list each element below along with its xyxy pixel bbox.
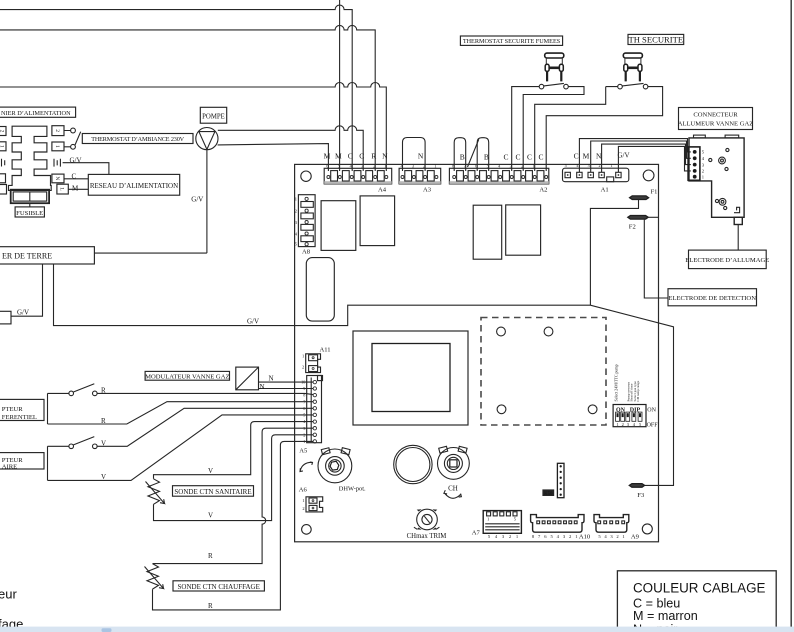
label ELECTRODE DE DETECTION [668, 289, 757, 306]
connector A10 [531, 515, 584, 533]
wire A1 pin4 to igniter pin5 [579, 139, 690, 172]
wire M vertical to A4 pin5 [339, 0, 341, 171]
label CONNECTEUR ALLUMEUR VANNE GAZ [678, 108, 754, 130]
svg-text:V: V [101, 439, 106, 447]
svg-text:M: M [335, 151, 342, 160]
svg-text:ON: ON [647, 408, 656, 414]
connector A11 [302, 354, 321, 373]
ground symbol G/V [54, 156, 109, 174]
svg-text:A7: A7 [472, 529, 481, 536]
fuse F2 [628, 216, 659, 231]
svg-text:A1: A1 [601, 186, 609, 193]
svg-text:B: B [460, 153, 465, 162]
pump P1 [196, 128, 218, 150]
wire V sanitaire bottom to A5 pin2 [154, 435, 314, 521]
DIP switch S1 [613, 405, 646, 427]
label capteur sanitaire [0, 453, 44, 471]
wire igniter to electrode allumage [737, 225, 739, 251]
svg-text:A4: A4 [378, 186, 387, 193]
svg-text:N: N [269, 375, 274, 383]
earth clamp box [0, 308, 29, 324]
wire V sanitaire top to A5 pin4 [154, 422, 314, 479]
svg-text:V: V [208, 512, 213, 520]
scrollbar track bottom [0, 627, 794, 632]
adjust arrow DHW [300, 462, 313, 472]
svg-text:G/V: G/V [17, 308, 29, 316]
label TH SECURITE [628, 34, 684, 44]
label capteur differentiel [0, 399, 44, 421]
thermostat ambiance switch contacts [64, 128, 81, 149]
svg-text:N: N [260, 383, 265, 391]
svg-text:R: R [101, 417, 106, 425]
svg-text:5: 5 [565, 163, 567, 168]
scrollbar thumb [102, 628, 112, 632]
svg-text:N: N [54, 176, 60, 180]
svg-text:POMPE: POMPE [202, 114, 225, 121]
svg-text:V: V [208, 467, 213, 475]
svg-text:1: 1 [0, 145, 4, 148]
svg-text:5: 5 [338, 163, 340, 168]
svg-text:F2: F2 [629, 223, 636, 230]
svg-text:A6: A6 [299, 487, 308, 494]
svg-text:DHW-pot.: DHW-pot. [339, 485, 366, 492]
svg-text:FERENTIEL: FERENTIEL [2, 414, 37, 421]
modulator valve symbol [236, 367, 259, 390]
svg-text:B: B [484, 153, 489, 162]
A4 terminal letters M M C C R N [324, 151, 389, 160]
svg-text:A11: A11 [319, 347, 330, 354]
potentiometer CH [438, 446, 470, 479]
svg-text:eur: eur [0, 587, 17, 602]
wire V to A5 pin5 [48, 415, 314, 481]
svg-text:FUSIBLE: FUSIBLE [16, 210, 43, 217]
A10 pin numbers [532, 534, 578, 539]
label THERMOSTAT D'AMBIANCE 230V [82, 134, 193, 144]
wire SW1 left to A2 pin4 [512, 87, 540, 171]
svg-text:2: 2 [302, 506, 304, 511]
svg-text:2: 2 [373, 163, 375, 168]
svg-text:6: 6 [326, 163, 328, 168]
igniter pin connector [688, 147, 705, 180]
DIP ON/OFF labels [647, 408, 659, 429]
svg-text:R: R [101, 387, 106, 395]
A9 pin numbers [598, 534, 625, 539]
svg-text:R: R [371, 151, 376, 160]
svg-text:1: 1 [434, 163, 436, 168]
svg-text:2: 2 [0, 130, 4, 133]
svg-text:A10: A10 [579, 534, 591, 541]
connector A2 [449, 163, 548, 184]
thermostat TH fumees [545, 53, 564, 81]
A7 pin numbers [488, 534, 519, 539]
label BORNIER D'ALIMENTATION [0, 107, 76, 117]
svg-text:2: 2 [295, 208, 297, 213]
connector A5 [301, 376, 322, 445]
panel hole 2 [544, 327, 553, 336]
svg-text:Select 24M/TTC pump: Select 24M/TTC pump [614, 364, 619, 401]
svg-text:OFF: OFF [647, 423, 659, 429]
svg-text:NIER D’ALIMENTATION: NIER D’ALIMENTATION [1, 110, 71, 117]
svg-text:THERMOSTAT D’AMBIANCE 230V: THERMOSTAT D’AMBIANCE 230V [91, 136, 184, 143]
A2 letters C C C C [503, 153, 543, 162]
label SONDE CTN SANITAIRE [173, 486, 254, 497]
svg-text:ALLUMEUR VANNE GAZ: ALLUMEUR VANNE GAZ [678, 121, 754, 128]
svg-text:CH: CH [448, 484, 458, 492]
svg-text:C: C [527, 153, 532, 162]
svg-text:1: 1 [54, 145, 60, 148]
svg-text:ELECTRODE DE DETECTION: ELECTRODE DE DETECTION [668, 295, 756, 302]
buzzer B1 [394, 445, 432, 483]
svg-text:G/V: G/V [247, 318, 259, 326]
svg-text:SONDE CTN CHAUFFAGE: SONDE CTN CHAUFFAGE [178, 583, 260, 591]
wire R to A4 pin2 [0, 25, 375, 171]
wire A1 pin3 to igniter pin4 [591, 141, 691, 172]
transformer T1 [306, 258, 334, 322]
svg-text:V: V [101, 473, 106, 481]
wire N modulator to A5 pin9 [259, 383, 314, 391]
wire A1 pin2 to igniter pin3 [602, 144, 691, 172]
svg-text:N: N [382, 151, 388, 160]
A2 jumper loop B1 [454, 138, 466, 171]
jumper K50 [542, 489, 554, 496]
svg-text:ELECTRODE D’ALLUMAGE: ELECTRODE D’ALLUMAGE [685, 257, 769, 264]
wire C [64, 172, 88, 180]
svg-text:C: C [574, 151, 579, 160]
legend COULEUR CABLAGE [617, 571, 776, 632]
svg-text:C: C [503, 153, 508, 162]
terminal block comb [9, 126, 52, 190]
terminal 2 left [0, 127, 6, 136]
svg-text:F3: F3 [637, 492, 645, 499]
svg-text:G/V: G/V [70, 156, 82, 164]
terminal L left [0, 185, 7, 195]
svg-text:A2: A2 [539, 186, 547, 193]
svg-text:C: C [515, 153, 520, 162]
panel hole 1 [497, 327, 506, 336]
label SONDE CTN CHAUFFAGE [173, 581, 264, 591]
switch SW2 securite [618, 83, 648, 88]
wire pump to A4 pin6 [218, 144, 329, 171]
connector A4 [324, 163, 392, 184]
switch SW3 differentiel [48, 384, 98, 424]
thermistor CTN sanitaire [146, 479, 165, 505]
label RESEAU D'ALIMENTATION [88, 174, 179, 195]
wire V to A5 pin6 [97, 408, 313, 447]
label FUSIBLE [15, 207, 44, 217]
svg-text:RESEAU D’ALIMENTATION: RESEAU D’ALIMENTATION [90, 182, 178, 190]
thermostat TH securite [623, 53, 642, 81]
wire pump to A4 pin3 [218, 126, 363, 171]
fuse F3 [629, 484, 645, 499]
terminal 2 right [52, 126, 64, 136]
wire F2 to electrode detection [644, 219, 668, 298]
mounting hole bottom-left [302, 525, 312, 535]
connector A6 [302, 497, 322, 512]
svg-text:K50: K50 [544, 492, 553, 497]
label ELECTRODE D'ALLUMAGE [685, 250, 769, 269]
svg-text:G/V: G/V [191, 195, 203, 203]
switch SW4 sanitaire [48, 437, 98, 481]
svg-text:2: 2 [622, 422, 624, 427]
svg-text:F1: F1 [651, 189, 658, 196]
svg-text:1: 1 [610, 163, 612, 168]
thermistor CTN chauffage [145, 564, 164, 589]
svg-text:1: 1 [302, 354, 304, 359]
svg-text:PTEUR: PTEUR [2, 406, 23, 413]
terminal 1 right [52, 142, 64, 151]
svg-text:3: 3 [588, 163, 590, 168]
window divider right [790, 0, 792, 627]
svg-text:M: M [583, 151, 590, 160]
wire N to A4 pin1 [0, 83, 386, 172]
igniter detail circles [709, 148, 729, 209]
wire SW2 left to A2 pin2 [535, 87, 618, 171]
wire R to A5 pin7 [48, 402, 314, 425]
pin header J1 [557, 463, 564, 497]
svg-text:2: 2 [302, 365, 304, 370]
ground bars left [2, 159, 5, 167]
capacitor C1 [473, 205, 502, 259]
svg-text:N: N [418, 152, 424, 161]
svg-text:TH SECURITE: TH SECURITE [628, 35, 683, 45]
svg-text:MODULATEUR VANNE GAZ: MODULATEUR VANNE GAZ [145, 373, 229, 380]
svg-text:C: C [348, 151, 353, 160]
svg-text:THERMOSTAT SECURITE FUMEES: THERMOSTAT SECURITE FUMEES [463, 38, 561, 45]
mounting hole top-right [643, 170, 654, 181]
A2 jumper diagonal [468, 139, 479, 167]
label BORNIER DE TERRE [0, 247, 94, 264]
capacitor C2 [506, 205, 541, 255]
svg-text:M = marron: M = marron [633, 609, 698, 623]
igniter module body [689, 135, 744, 224]
svg-text:C: C [359, 151, 364, 160]
wire M [68, 185, 88, 193]
svg-text:CHmax TRIM: CHmax TRIM [407, 533, 447, 540]
wire mains C to A4 pin4 [0, 5, 352, 171]
wire terre to earth clamp [11, 264, 43, 316]
fuse holder [11, 190, 49, 207]
connector A1 [563, 163, 629, 182]
fuse F1 [630, 189, 658, 200]
svg-text:1: 1 [302, 498, 304, 503]
svg-text:G/V: G/V [617, 152, 629, 160]
svg-text:2: 2 [599, 163, 601, 168]
terminal L right [57, 184, 68, 194]
switch SW1 fumees [539, 83, 568, 88]
svg-text:A9: A9 [631, 534, 640, 541]
A3 jumper loop N [403, 138, 426, 172]
wire pump earth G/V [191, 150, 207, 253]
svg-text:M: M [72, 185, 79, 193]
wire F1 to earth bus [590, 200, 638, 306]
A1 letters C M N G/V [574, 151, 630, 160]
svg-text:3: 3 [412, 163, 414, 168]
panel hole 4 [588, 405, 597, 414]
relay K1 [321, 201, 356, 251]
terminal N left [0, 174, 6, 183]
svg-text:AIRE: AIRE [2, 463, 17, 470]
svg-text:R: R [208, 552, 213, 560]
svg-text:2: 2 [54, 129, 60, 132]
wire terre to pump [94, 252, 206, 254]
connector A8 [295, 195, 315, 247]
wire SW1 right to A2 pin3 [523, 87, 584, 171]
label POMPE [200, 107, 226, 123]
svg-text:C: C [538, 153, 543, 162]
svg-text:1: 1 [616, 422, 618, 427]
terminal 1 left [0, 142, 6, 151]
wire R chauffage bottom to A5 pin1 [153, 441, 314, 610]
svg-text:SONDE CTN SANITAIRE: SONDE CTN SANITAIRE [174, 488, 251, 496]
mounting hole bottom-right [642, 524, 652, 534]
terminal N right [52, 174, 64, 183]
svg-text:A8: A8 [302, 249, 311, 256]
DIP function labels (rotated) [614, 364, 641, 401]
svg-text:M: M [324, 151, 331, 160]
potentiometer DHW-pot [318, 448, 352, 483]
wire A1 pin1 to igniter pin2 [618, 146, 690, 172]
mounting hole top-left [301, 171, 311, 181]
svg-text:A3: A3 [423, 186, 432, 193]
svg-text:C: C [72, 172, 77, 180]
wire G/V earth bus [54, 264, 674, 485]
wire R chauffage top to A5 pin3 (hop over sanitaire wire) [153, 428, 314, 563]
trimmer CHmax TRIM [414, 509, 440, 530]
svg-text:CONNECTEUR: CONNECTEUR [693, 112, 738, 119]
panel hole 3 [497, 405, 506, 414]
label MODULATEUR VANNE GAZ [145, 371, 229, 380]
display window [372, 344, 450, 412]
label THERMOSTAT SECURITE FUMEES [460, 36, 562, 45]
svg-text:ER DE TERRE: ER DE TERRE [2, 252, 52, 261]
PCB board outline [295, 164, 659, 541]
connector A9 [594, 515, 629, 533]
svg-text:A5: A5 [299, 448, 308, 455]
wire R to A5 pin8 [97, 387, 313, 395]
A2 jumper loop B2 [477, 138, 489, 171]
relay K2 [360, 196, 395, 246]
svg-text:1: 1 [295, 197, 297, 202]
wire SW2 right to A2 pin1 [546, 87, 662, 171]
wire N modulator to A5 pin10 [259, 375, 314, 383]
svg-text:COULEUR CABLAGE: COULEUR CABLAGE [633, 581, 766, 596]
display module outer [353, 331, 468, 425]
svg-text:R: R [208, 602, 213, 610]
svg-text:1: 1 [384, 163, 386, 168]
dashed panel outline [481, 318, 606, 426]
svg-text:CH temp range: CH temp range [636, 380, 640, 401]
connector A7 [483, 511, 521, 534]
adjust arrow CH [444, 490, 462, 498]
connector A3 [399, 163, 441, 184]
A2 letters B B [460, 153, 489, 162]
svg-text:3: 3 [361, 163, 363, 168]
